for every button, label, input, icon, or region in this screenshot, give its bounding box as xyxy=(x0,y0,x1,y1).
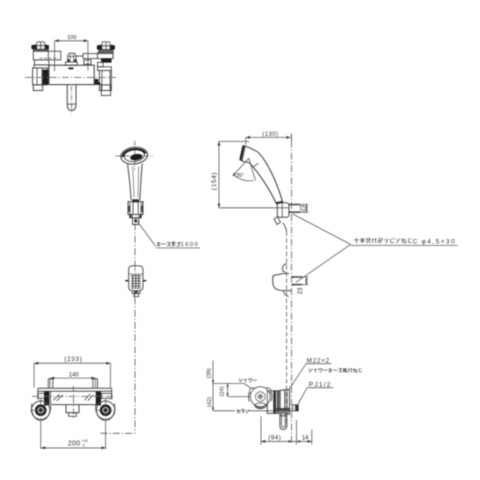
svg-text:PJ1/2: PJ1/2 xyxy=(309,381,332,388)
svg-text:1600: 1600 xyxy=(181,242,200,248)
svg-text:23: 23 xyxy=(300,204,306,211)
svg-text:100: 100 xyxy=(67,35,76,41)
svg-text:23: 23 xyxy=(298,287,304,294)
svg-text:200: 200 xyxy=(68,440,81,447)
svg-text:(154): (154) xyxy=(211,172,218,190)
svg-text:(42): (42) xyxy=(207,397,213,407)
svg-text:φ4,5×30: φ4,5×30 xyxy=(422,239,457,246)
svg-text:M22×2: M22×2 xyxy=(307,358,330,365)
svg-text:C: C xyxy=(413,240,418,246)
svg-text:(94): (94) xyxy=(268,434,281,441)
svg-text:(39): (39) xyxy=(207,368,213,378)
svg-text:-2: -2 xyxy=(82,443,85,447)
svg-text:(233): (233) xyxy=(64,356,82,363)
svg-text:(24): (24) xyxy=(220,386,226,396)
svg-text:35°: 35° xyxy=(236,173,244,179)
svg-text:14: 14 xyxy=(302,435,309,441)
svg-text:140: 140 xyxy=(69,373,80,379)
